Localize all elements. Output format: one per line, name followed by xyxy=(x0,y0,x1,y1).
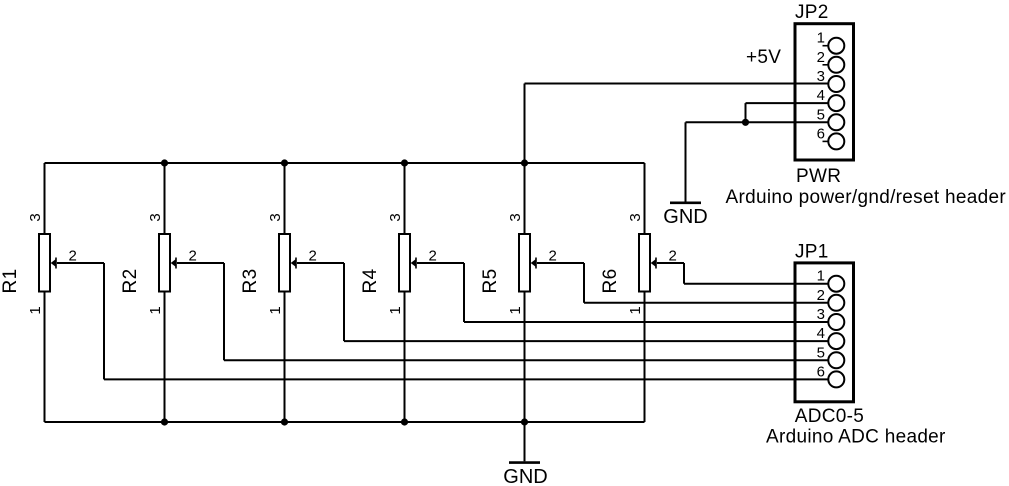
potentiometer R4 xyxy=(360,163,828,422)
svg-text:1: 1 xyxy=(627,306,644,314)
svg-text:PWR: PWR xyxy=(796,166,841,187)
svg-text:Arduino power/gnd/reset header: Arduino power/gnd/reset header xyxy=(726,187,1007,208)
svg-text:1: 1 xyxy=(27,306,44,314)
potentiometer R3 xyxy=(240,163,828,422)
svg-text:3: 3 xyxy=(387,213,404,221)
JP1 pin 4 pad xyxy=(817,325,845,349)
svg-text:GND: GND xyxy=(663,206,707,228)
potentiometer R1 xyxy=(0,163,828,422)
svg-text:R3: R3 xyxy=(240,269,261,294)
svg-text:2: 2 xyxy=(669,248,677,265)
junction bottom rail x=164.5 xyxy=(161,418,168,425)
svg-text:2: 2 xyxy=(309,248,317,265)
wire top rail (+5V distribution) xyxy=(45,162,645,164)
JP2 pin 2 pad xyxy=(817,49,845,73)
ground GND (upper) xyxy=(663,203,707,228)
JP1 pin 3 pad xyxy=(817,306,845,330)
svg-text:1: 1 xyxy=(387,306,404,314)
JP1 pin 5 pad xyxy=(817,344,845,368)
svg-text:1: 1 xyxy=(267,306,284,314)
potentiometer R5 xyxy=(480,163,828,422)
svg-text:6: 6 xyxy=(817,363,825,380)
JP2 pin 3 pad xyxy=(817,68,845,92)
JP2 pin 6 pad xyxy=(817,125,845,149)
junction top rail x=524.5 xyxy=(521,159,528,166)
junction bottom rail x=524.5 xyxy=(521,418,528,425)
svg-text:R2: R2 xyxy=(120,269,141,294)
junction bottom rail x=284.5 xyxy=(281,418,288,425)
svg-text:JP1: JP1 xyxy=(795,242,829,263)
JP2 pin 5 pad xyxy=(817,106,845,130)
ground GND (bottom) xyxy=(503,463,547,486)
svg-text:3: 3 xyxy=(267,213,284,221)
svg-text:R5: R5 xyxy=(480,269,501,294)
svg-text:1: 1 xyxy=(507,306,524,314)
junction top rail x=284.5 xyxy=(281,159,288,166)
svg-text:1: 1 xyxy=(817,268,825,285)
svg-text:3: 3 xyxy=(147,213,164,221)
svg-text:Arduino ADC header: Arduino ADC header xyxy=(766,426,946,447)
JP2 pin 4 pad xyxy=(817,87,845,111)
svg-text:3: 3 xyxy=(627,213,644,221)
svg-text:JP2: JP2 xyxy=(795,2,829,23)
junction JP2 gnd node xyxy=(742,119,749,126)
svg-text:2: 2 xyxy=(817,287,825,304)
svg-text:+5V: +5V xyxy=(746,47,781,68)
wire JP2 pin 5 xyxy=(686,121,829,123)
svg-text:5: 5 xyxy=(817,344,825,361)
connector JP1 body xyxy=(795,263,854,402)
svg-text:1: 1 xyxy=(817,30,825,47)
svg-text:2: 2 xyxy=(189,248,197,265)
wire +5V net to JP2 pin 3 xyxy=(525,84,829,164)
JP1 pin 1 pad xyxy=(817,268,845,292)
wire to upper GND xyxy=(685,122,687,201)
svg-text:R1: R1 xyxy=(0,269,21,294)
svg-text:1: 1 xyxy=(147,306,164,314)
JP2 pin 1 pad xyxy=(817,30,845,54)
JP1 pin 2 pad xyxy=(817,287,845,311)
junction bottom rail x=404.5 xyxy=(401,418,408,425)
svg-text:R6: R6 xyxy=(600,269,621,294)
svg-text:2: 2 xyxy=(817,49,825,66)
svg-text:4: 4 xyxy=(817,87,825,104)
svg-text:2: 2 xyxy=(549,248,557,265)
svg-text:6: 6 xyxy=(817,125,825,142)
svg-text:3: 3 xyxy=(507,213,524,221)
JP1 pin 6 pad xyxy=(817,363,845,387)
svg-text:2: 2 xyxy=(69,248,77,265)
potentiometer R2 xyxy=(120,163,828,422)
svg-text:3: 3 xyxy=(27,213,44,221)
wire to bottom GND xyxy=(524,422,526,461)
wire bottom rail (GND distribution) xyxy=(45,421,645,423)
svg-text:2: 2 xyxy=(429,248,437,265)
svg-text:GND: GND xyxy=(503,466,547,486)
svg-text:4: 4 xyxy=(817,325,825,342)
svg-text:3: 3 xyxy=(817,306,825,323)
svg-text:R4: R4 xyxy=(360,268,381,293)
junction top rail x=404.5 xyxy=(401,159,408,166)
potentiometer R6 xyxy=(600,163,828,422)
connector JP2 body xyxy=(795,24,854,160)
svg-text:3: 3 xyxy=(817,68,825,85)
svg-text:5: 5 xyxy=(817,106,825,123)
svg-text:ADC0-5: ADC0-5 xyxy=(795,406,864,427)
wire JP2 pin 4 xyxy=(746,103,829,122)
junction top rail x=164.5 xyxy=(161,159,168,166)
